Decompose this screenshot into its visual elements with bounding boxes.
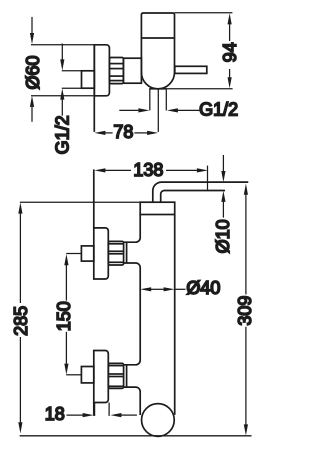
wire: stub extension line bottom xyxy=(62,87,95,89)
bottom mount: knurled nut xyxy=(108,363,123,388)
wire: 18 left extension xyxy=(94,403,96,416)
svg-text:150: 150 xyxy=(54,301,74,331)
dimension 138 left arrow xyxy=(94,168,131,172)
lever handle (top view) xyxy=(175,66,207,73)
wire: 94 extension line top xyxy=(175,12,233,14)
column left edge with mount arms xyxy=(124,215,141,416)
svg-text:94: 94 xyxy=(220,42,240,62)
shower pipe bend outer line xyxy=(153,182,249,202)
wall inlet pipe stub (top view) xyxy=(82,71,95,88)
svg-text:Ø60: Ø60 xyxy=(23,55,43,89)
top mount: wall pipe stub xyxy=(81,246,93,261)
shower pipe bend inner line xyxy=(161,191,225,203)
body cap parting line (top view) xyxy=(141,37,174,39)
leader G1/2 outlet: left-pointing arrow xyxy=(167,108,201,112)
dimension 150 top arrow xyxy=(64,254,81,301)
svg-text:309: 309 xyxy=(235,296,255,326)
dimension 78 line left segment xyxy=(94,131,112,135)
wire: outlet bottom extension line xyxy=(149,88,166,90)
wire: Ø60 extension line top xyxy=(31,44,94,46)
wall line (top view) xyxy=(93,45,95,132)
wire: Ø60 extension line bottom xyxy=(31,95,94,97)
wall line upper segment (lower view) xyxy=(93,169,95,228)
wall flange escutcheon (top view) xyxy=(94,45,109,96)
svg-text:G1/2: G1/2 xyxy=(199,99,238,119)
svg-text:Ø40: Ø40 xyxy=(186,278,220,298)
leader G1/2 outlet: right-pointing arrow xyxy=(119,108,149,112)
dimension Ø60 lower arrow xyxy=(30,96,34,122)
column right edge xyxy=(174,215,176,415)
svg-text:G1/2: G1/2 xyxy=(52,115,72,154)
wire: 285 top extension line xyxy=(20,201,141,203)
wire: 18 right extension xyxy=(108,403,110,416)
dimension 78 line right segment xyxy=(134,131,158,135)
dimension 285 lower arrow xyxy=(18,337,22,433)
dimension 18 right arrow xyxy=(110,413,136,417)
wire: 94 bottom extension line xyxy=(167,88,233,90)
mixer body capsule (top view) xyxy=(141,13,174,89)
dimension 309 upper arrow xyxy=(244,184,248,295)
dimension Ø40 double arrow xyxy=(140,287,174,291)
top mount: knurled nut xyxy=(108,241,123,265)
dimension Ø10 lower arrow xyxy=(221,191,225,218)
dimension 138 right arrow xyxy=(166,168,208,172)
bottom mount: wall pipe stub xyxy=(81,367,93,383)
dimension Ø60 upper arrow xyxy=(30,17,34,44)
svg-text:285: 285 xyxy=(11,306,31,336)
dimension G1/2 upper arrow (left) xyxy=(60,44,64,71)
svg-text:18: 18 xyxy=(45,404,65,424)
svg-text:78: 78 xyxy=(113,122,133,142)
bottom mount: union neck cap xyxy=(126,365,128,387)
bottom mount: flange escutcheon xyxy=(94,351,109,403)
wire: outlet centre extension xyxy=(157,89,159,132)
bottom outlet circle xyxy=(142,404,175,437)
wall line lower segment (lower view) xyxy=(93,403,95,416)
dimension 150 bottom arrow xyxy=(64,332,81,375)
dimension 18 left arrow xyxy=(67,413,94,417)
wire: outlet left extension xyxy=(149,89,151,111)
dimension 94 lower arrow xyxy=(228,69,232,88)
svg-text:138: 138 xyxy=(133,160,163,180)
top mount: union neck cap xyxy=(126,242,128,263)
top mount: flange escutcheon xyxy=(94,228,109,279)
dimension 309 lower arrow xyxy=(244,327,248,436)
svg-text:Ø10: Ø10 xyxy=(213,219,233,253)
wire: 138 right extension / pipe end cap xyxy=(207,166,209,191)
wire: bottom ground extension line xyxy=(20,435,252,437)
knurled union nut (top view) xyxy=(109,58,123,84)
column top cap box xyxy=(140,202,175,214)
dimension 94 upper arrow xyxy=(228,13,232,41)
wire: stub extension line top xyxy=(62,70,82,72)
dimension Ø10 upper arrow xyxy=(221,155,225,182)
dimension 285 upper arrow xyxy=(18,202,22,303)
dimension G1/2 lower arrow (left) xyxy=(60,89,64,116)
wire: outlet right extension xyxy=(165,89,167,111)
union connector piece (top view) xyxy=(123,58,141,83)
leader Ø40 xyxy=(175,288,186,290)
